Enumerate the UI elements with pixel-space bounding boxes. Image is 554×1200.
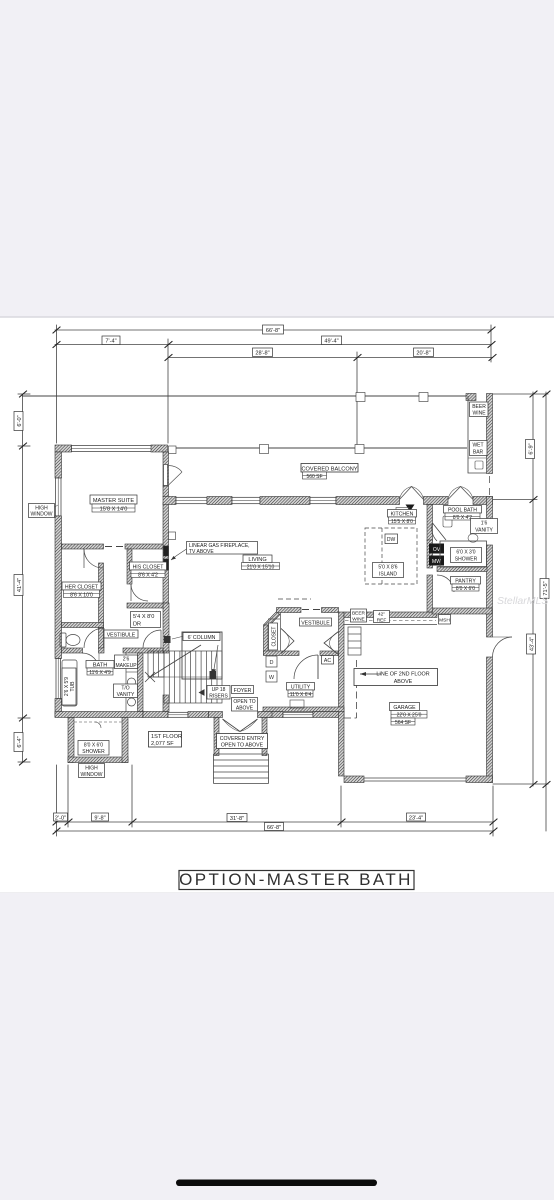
pool bath shower enclosure [440, 541, 487, 567]
svg-text:66'-8": 66'-8" [267, 825, 281, 831]
svg-text:REF: REF [377, 617, 387, 623]
tub [62, 660, 77, 706]
label DR [131, 612, 161, 628]
main north wall y497 : segments with windows [163, 497, 176, 505]
kitchen sink north counter [396, 508, 409, 517]
svg-text:CLOSET: CLOSET [272, 626, 278, 646]
vanity wall [138, 653, 144, 712]
entry side wall right [262, 718, 267, 756]
svg-text:OPEN TO ABOVE: OPEN TO ABOVE [221, 743, 264, 749]
svg-text:VANITY: VANITY [475, 527, 493, 533]
kitchen east wall (oven wall) [427, 505, 433, 541]
label high window left [29, 504, 55, 518]
label 6' column [183, 633, 220, 641]
shower bench [74, 721, 122, 723]
svg-text:8'0 X 4'2: 8'0 X 4'2 [453, 515, 472, 521]
washer dryer boxes [266, 656, 277, 667]
dim line top 66'-8" [55, 329, 491, 331]
bottom dim line y831 66'-8" [55, 830, 493, 832]
left outer wall (top part) [55, 452, 62, 478]
label tub rotated [62, 668, 76, 705]
left dim extension y718 [18, 717, 30, 719]
vestibule2 closet wall [280, 613, 282, 652]
right dim extension y783 [493, 783, 548, 785]
label beer wine bar [470, 402, 489, 417]
svg-text:D: D [270, 660, 274, 666]
svg-text:5'0 X 8'6: 5'0 X 8'6 [378, 565, 397, 571]
svg-text:560 SF: 560 SF [306, 474, 322, 480]
svg-text:6'0 X 3'0: 6'0 X 3'0 [456, 550, 475, 556]
label bath [86, 661, 114, 676]
label shower [78, 741, 109, 756]
svg-text:UP 18: UP 18 [212, 687, 226, 693]
entry pier right [258, 712, 273, 718]
label her closet [62, 582, 101, 598]
svg-text:DR: DR [133, 622, 141, 628]
toilet room door arc [84, 628, 104, 648]
pool bath door leaf [433, 523, 447, 540]
svg-text:MASTER SUITE: MASTER SUITE [93, 498, 135, 504]
dim 9'-0" right [526, 440, 535, 459]
dim 6'-4" left [14, 733, 23, 752]
balcony column 5 [419, 393, 428, 402]
kitchen counter dashes [345, 620, 436, 622]
up riser arrow [199, 689, 205, 696]
dim 9'-8" bottom [92, 813, 109, 821]
her closet door arc [84, 549, 103, 568]
svg-text:ABOVE: ABOVE [236, 705, 254, 711]
label wet bar [470, 441, 488, 456]
toilet [60, 633, 66, 647]
right dim extension y453 [493, 499, 537, 501]
svg-text:41'-4": 41'-4" [17, 578, 23, 592]
left outer wall (mid) [55, 516, 62, 659]
toilet room top wall [62, 623, 104, 628]
top band bottom edge [0, 316, 554, 318]
svg-text:W: W [269, 675, 275, 681]
6' column open box [182, 632, 222, 679]
right outer wall (pool bath) [487, 497, 493, 533]
high window leader top [53, 505, 58, 508]
bath north wall left segment [62, 648, 83, 653]
svg-text:COVERED ENTRY: COVERED ENTRY [220, 736, 265, 742]
label AC [322, 656, 334, 665]
label vestibule 2 [300, 618, 332, 626]
foyer south wall w/ window [143, 712, 168, 718]
fireplace box 1 [164, 546, 169, 556]
pool bath door arc [432, 523, 437, 541]
label t/o vanity [114, 684, 138, 698]
label pantry [451, 577, 481, 592]
svg-text:OV: OV [433, 547, 441, 553]
utility north wall [264, 651, 300, 656]
utility south wall [263, 707, 344, 712]
right dim vertical x531 [532, 392, 534, 786]
svg-text:31'-8": 31'-8" [230, 816, 244, 822]
dim line 28'-8" / 20'-8" [168, 357, 492, 359]
kitchen/garage wall band [344, 612, 437, 618]
bottom extension x493 [492, 786, 494, 836]
svg-text:LINE OF 2ND FLOOR: LINE OF 2ND FLOOR [376, 672, 429, 678]
svg-text:StellarMLS: StellarMLS [497, 595, 548, 607]
svg-text:2'6 X 5'9: 2'6 X 5'9 [64, 677, 70, 696]
svg-text:BEER: BEER [352, 610, 366, 616]
label utility [287, 683, 315, 698]
label living [242, 555, 280, 570]
svg-text:6' COLUMN: 6' COLUMN [188, 635, 216, 641]
6' column leader [172, 636, 184, 639]
entry side wall left [214, 718, 219, 756]
label open to above [232, 698, 258, 712]
garage door opening [364, 778, 466, 781]
svg-text:TV ABOVE: TV ABOVE [189, 549, 214, 555]
vestibule2 top wall right block [322, 608, 339, 613]
utility sink [290, 700, 304, 708]
svg-text:23'-4": 23'-4" [409, 815, 423, 821]
master right wall top segment [163, 452, 169, 486]
svg-text:HIS CLOSET: HIS CLOSET [133, 564, 165, 570]
label master suite [90, 495, 137, 513]
vestibule-hall door arc [143, 630, 161, 648]
left outer wall (to bottom) [55, 699, 62, 718]
svg-text:2,077 SF: 2,077 SF [151, 741, 174, 747]
svg-text:HIGH: HIGH [85, 766, 98, 772]
dim 66'-8" bottom [265, 823, 284, 831]
wet bar corner block [466, 394, 476, 401]
living door swing [168, 465, 183, 472]
dim 41'-4" left [14, 575, 23, 596]
her closet right wall [99, 563, 104, 628]
right wall dashed opening [489, 476, 491, 495]
vanity sink 1 [128, 678, 136, 686]
svg-text:66'-8": 66'-8" [266, 328, 280, 334]
pantry door arc [437, 575, 454, 592]
svg-text:SHOWER: SHOWER [82, 749, 105, 755]
toilet room right wall [99, 628, 104, 649]
label covered entry [217, 734, 268, 749]
left dim vertical line [22, 394, 24, 762]
line of 2nd floor dashed [344, 660, 357, 718]
svg-text:BAR: BAR [473, 449, 484, 455]
utility/garage west wall [339, 612, 345, 776]
vestibule double door chevron [324, 632, 339, 655]
section marker triangle [406, 505, 415, 512]
label 2'6 makeup [115, 655, 138, 669]
label foyer [232, 686, 254, 694]
label high window bottom [79, 764, 105, 778]
svg-text:AC: AC [324, 658, 331, 664]
svg-text:VESTIBULE: VESTIBULE [107, 632, 136, 638]
svg-text:MSH: MSH [439, 617, 450, 623]
vanity sink 2 [128, 698, 136, 706]
balcony french door right [448, 487, 473, 500]
extension line right x491 [490, 325, 492, 362]
stair side flight [148, 651, 222, 677]
master top window [72, 446, 152, 452]
svg-text:7'-4": 7'-4" [105, 339, 116, 345]
svg-text:MAKEUP: MAKEUP [115, 663, 137, 669]
stairs treads [169, 651, 217, 703]
bottom extension x55 [56, 765, 58, 836]
label covered balcony [301, 464, 358, 480]
extension line x168 [167, 339, 169, 443]
svg-text:VANITY: VANITY [117, 692, 135, 698]
wet bar counter [468, 396, 487, 473]
right dim extension y394 [493, 393, 548, 395]
dim 20'-8" [414, 348, 434, 357]
left dim extension y446 [18, 445, 30, 447]
dim 28'-8" [253, 348, 273, 357]
dim line 7'-4" / 49'-4" [55, 344, 491, 346]
svg-text:VESTIBULE: VESTIBULE [301, 620, 330, 626]
right outer wall (mid) [487, 545, 493, 637]
svg-text:42": 42" [378, 612, 385, 618]
dim 23'-4" bottom [407, 813, 426, 821]
svg-text:TUB: TUB [70, 681, 76, 692]
dim 66'-8" top [263, 325, 284, 334]
svg-text:WINDOW: WINDOW [31, 512, 53, 518]
svg-text:15'5 X 8'0: 15'5 X 8'0 [391, 519, 413, 525]
label fireplace [187, 542, 258, 556]
wall stub right of stairs hall [163, 695, 169, 712]
label his closet [130, 562, 167, 578]
left wall window at bath [56, 659, 61, 699]
vestibule2 bay left angled wall [264, 612, 281, 629]
dim 6'-0" left [14, 412, 23, 431]
balcony french door left [400, 487, 424, 500]
svg-text:ISLAND: ISLAND [379, 571, 397, 577]
bottom extension x68 [67, 765, 69, 827]
svg-text:6'-0": 6'-0" [17, 415, 23, 426]
right outer wall (garage) [487, 657, 493, 783]
label beer wine counter [351, 609, 367, 622]
balcony edge line lower [176, 447, 467, 449]
label 1'6 vanity [471, 519, 498, 534]
balcony edge line upper [22, 395, 468, 397]
wet bar sink [475, 461, 483, 469]
garage north wall [432, 608, 492, 614]
bottom extension x132 [131, 765, 133, 827]
kitchen island dashed [365, 528, 417, 584]
svg-text:1ST FLOOR: 1ST FLOOR [151, 734, 182, 740]
extension line x357 [356, 352, 358, 447]
kitchen ovens black boxes [429, 544, 444, 554]
bath north wall right segment [123, 648, 163, 653]
svg-text:BEER: BEER [472, 404, 486, 410]
dim 49'-4" [322, 336, 342, 345]
svg-text:1'6: 1'6 [481, 521, 488, 527]
garage bottom wall left block [344, 776, 364, 783]
svg-text:49'-4": 49'-4" [324, 339, 338, 345]
svg-text:8'0 X 6'0: 8'0 X 6'0 [456, 586, 475, 592]
label pool shower [451, 548, 482, 563]
title box OPTION-MASTER BATH [179, 870, 414, 890]
balcony column 2 [260, 445, 269, 454]
entry double doors V [223, 719, 258, 732]
label pool bath [444, 506, 482, 521]
his closet left wall [127, 549, 132, 584]
svg-text:WINDOW: WINDOW [81, 772, 103, 778]
garage side door arc [493, 637, 513, 657]
label vestibule 1 [104, 630, 138, 638]
svg-text:DW: DW [387, 537, 396, 543]
pool bath toilet [443, 516, 452, 527]
bottom band top edge [0, 892, 554, 894]
closet bifold chevron [281, 629, 294, 654]
dim 43'-4" right [527, 634, 536, 654]
stairs direction arrow [150, 645, 201, 677]
plan white sheet [0, 317, 554, 893]
svg-text:5'4 X 8'0: 5'4 X 8'0 [133, 614, 154, 620]
makeup counter line [126, 671, 138, 673]
svg-text:564 SF: 564 SF [395, 720, 411, 726]
makeup counter circle [128, 660, 136, 668]
left wall window (high window) [56, 478, 62, 516]
vestibule2 top wall left block [277, 608, 302, 613]
svg-text:15'8 X 14'0: 15'8 X 14'0 [100, 507, 128, 513]
svg-text:28'-8": 28'-8" [255, 351, 269, 357]
shower bump-out right wall [122, 718, 128, 763]
vestibule2 top opening dashes [302, 609, 320, 611]
svg-text:2'6: 2'6 [123, 657, 130, 663]
bath south wall [55, 712, 143, 718]
label island [373, 563, 404, 578]
garage entry steps [348, 627, 361, 655]
master top wall right block [151, 445, 168, 452]
master right wall mid segment below door [163, 486, 169, 497]
label line of 2nd floor [354, 669, 438, 686]
master right wall lower segment [163, 603, 169, 653]
svg-text:HER CLOSET: HER CLOSET [65, 584, 99, 590]
svg-text:2'-0": 2'-0" [55, 815, 66, 821]
svg-text:OPEN TO: OPEN TO [233, 699, 255, 705]
bottom dim line y822 [55, 821, 493, 823]
closet wall dashed opening [105, 546, 123, 548]
bath door arc [82, 653, 99, 670]
home indicator bar [176, 1180, 377, 1187]
extension line left x55 [56, 325, 58, 443]
label garage [390, 703, 428, 726]
balcony column 4 [356, 393, 365, 402]
dimension tick marks [20, 327, 551, 834]
interior wall between master and closets [62, 544, 104, 549]
entry pier left [209, 712, 223, 718]
bottom extension x341 [340, 786, 342, 827]
svg-text:8'6 X 4'2: 8'6 X 4'2 [138, 572, 158, 578]
svg-text:11'6 X 4'9: 11'6 X 4'9 [89, 670, 111, 676]
utility door arc [294, 655, 318, 679]
svg-text:FOYER: FOYER [234, 688, 252, 694]
balcony column 3 [355, 445, 364, 454]
right dim vertical x544 [545, 392, 547, 831]
svg-text:8'6 X 10'0: 8'6 X 10'0 [70, 592, 93, 598]
dim 2'-0" bottom [54, 813, 68, 821]
phone background top band [0, 0, 554, 317]
svg-text:ABOVE: ABOVE [394, 679, 413, 685]
svg-text:WET: WET [472, 443, 483, 449]
left dim short extension at y394 [18, 393, 30, 395]
svg-text:GARAGE: GARAGE [393, 705, 416, 711]
counter edge under band [344, 624, 437, 626]
svg-text:71'-5": 71'-5" [543, 581, 549, 595]
living door leaf at master wall [164, 465, 168, 486]
label MSH [439, 615, 451, 625]
his closet door arc [131, 584, 148, 601]
shower head mark [95, 722, 101, 728]
label kitchen [388, 510, 417, 525]
pool bath sink oval [468, 534, 478, 542]
svg-text:T/O: T/O [121, 686, 129, 692]
shower bump-out bottom wall [68, 757, 128, 763]
phone background bottom band [0, 893, 554, 1200]
entry steps [214, 754, 269, 784]
shower bump-out left wall [68, 718, 74, 763]
stairs outline [164, 651, 222, 703]
fireplace box 2 [164, 559, 169, 570]
dashed 2nd floor line above vestibule [278, 598, 311, 600]
jamb block on hall wall [164, 636, 171, 643]
svg-text:COVERED BALCONY: COVERED BALCONY [302, 466, 358, 472]
stair column SE [210, 671, 217, 679]
south wall right of entry [261, 712, 283, 718]
svg-text:11'0 X 6'4: 11'0 X 6'4 [290, 692, 312, 698]
svg-text:9'-8": 9'-8" [94, 815, 105, 821]
vanity counter line [125, 653, 127, 712]
vestibule2 left wall [264, 625, 269, 655]
svg-text:22'0 X 25'0: 22'0 X 25'0 [397, 713, 422, 719]
svg-text:OPTION-MASTER BATH: OPTION-MASTER BATH [179, 870, 413, 889]
master top wall corner L [55, 445, 72, 452]
label closet rotated [269, 623, 278, 650]
right outer wall upper (balcony) [487, 394, 493, 474]
dim 7'-4" [102, 336, 120, 345]
svg-text:6'-4": 6'-4" [17, 736, 23, 747]
svg-text:WINE: WINE [352, 616, 365, 622]
his closet bottom wall [127, 603, 163, 608]
fireplace leader line [171, 548, 188, 560]
balcony column 1 [169, 446, 177, 454]
svg-text:SHOWER: SHOWER [455, 556, 478, 562]
svg-text:43'-4": 43'-4" [529, 637, 535, 651]
garage bottom wall right block [466, 776, 493, 783]
label 1st floor [149, 732, 182, 748]
label DW [385, 534, 398, 544]
svg-text:21'0 X 15'10: 21'0 X 15'10 [247, 564, 275, 570]
svg-text:8'0 X 6'0: 8'0 X 6'0 [84, 743, 103, 749]
left dim extension y762 [18, 761, 30, 763]
wall outlet square [169, 532, 176, 540]
pool bath south wall [437, 567, 487, 572]
dim 31'-8" bottom [227, 814, 247, 822]
svg-text:6'-9": 6'-9" [528, 443, 534, 454]
svg-text:RISERS: RISERS [209, 693, 228, 699]
dim 71'-5" right [540, 579, 549, 599]
label up 18 risers [207, 686, 230, 700]
label 42 ref [374, 611, 390, 624]
svg-text:WINE: WINE [472, 411, 486, 417]
svg-text:20'-8": 20'-8" [416, 351, 430, 357]
